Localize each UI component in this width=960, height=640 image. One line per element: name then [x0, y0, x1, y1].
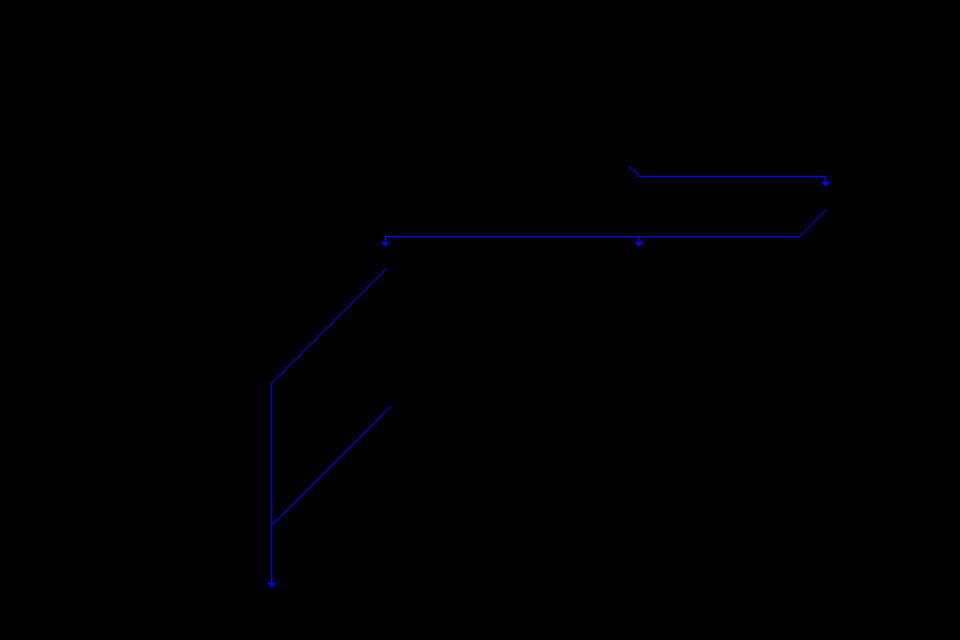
arrowhead into right node	[822, 182, 829, 186]
arrowhead into bottom node	[268, 583, 275, 587]
wire: second diagonal joining vertical	[272, 406, 391, 525]
arrowhead into middle node	[635, 242, 642, 246]
wire: top horizontal segment	[639, 176, 825, 178]
arrowhead into left node	[382, 242, 389, 246]
wire: diagonal from left node down	[271, 269, 386, 384]
wire: edge from top node, diagonal start segment	[629, 166, 639, 176]
wire: short vertical drop into left node	[385, 236, 387, 242]
wire: long horizontal return segment	[385, 236, 800, 238]
wire: short vertical drop into middle node	[638, 236, 640, 242]
wire: diagonal leaving right node	[800, 210, 826, 236]
wire: short vertical drop into right node	[825, 176, 827, 182]
wire: long vertical segment	[271, 384, 273, 584]
